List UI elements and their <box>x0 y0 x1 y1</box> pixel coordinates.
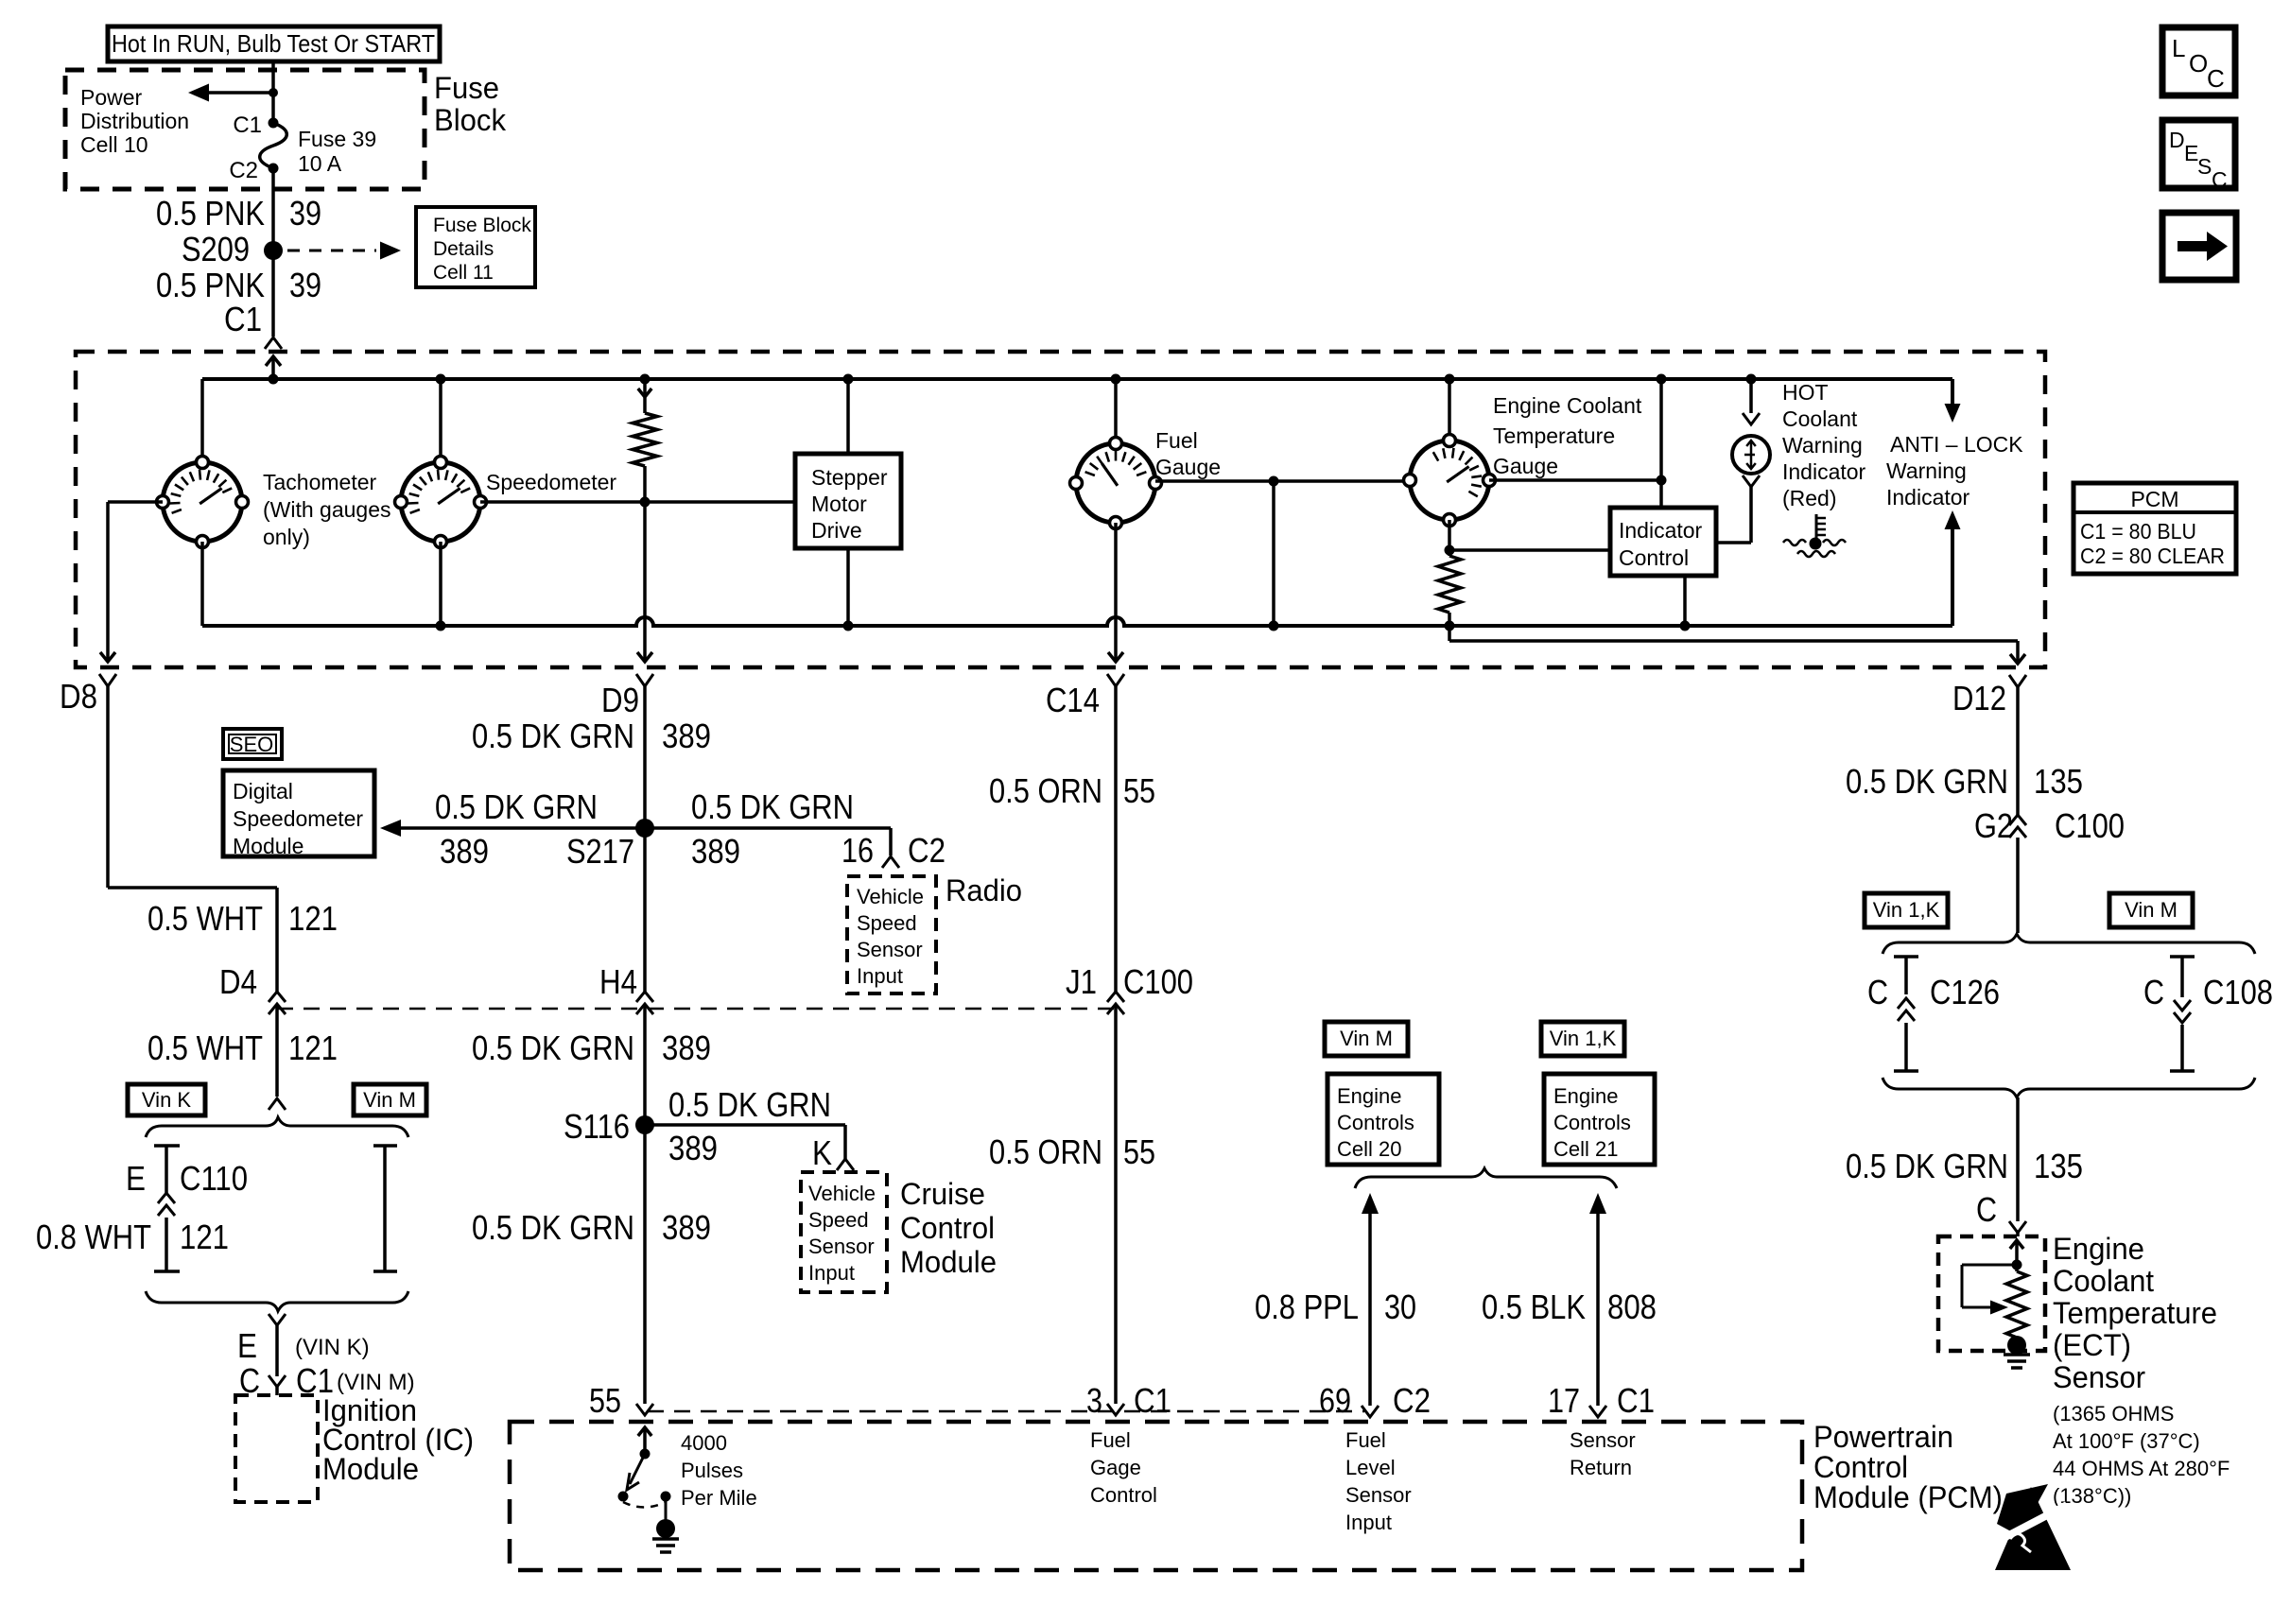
svg-text:Module: Module <box>322 1452 419 1486</box>
svg-text:Sensor: Sensor <box>2053 1360 2145 1394</box>
svg-text:Engine Coolant: Engine Coolant <box>1493 393 1642 418</box>
svg-text:Sensor: Sensor <box>808 1235 875 1258</box>
svg-text:Temperature: Temperature <box>1493 423 1615 448</box>
svg-text:Gauge: Gauge <box>1493 454 1558 478</box>
svg-text:(Red): (Red) <box>1782 486 1837 510</box>
svg-text:Engine: Engine <box>1553 1084 1619 1108</box>
arrow to power distribution <box>188 84 278 102</box>
wire C14 down to J1 <box>1114 686 1118 992</box>
indicator control box <box>1610 508 1716 576</box>
title box: Hot In RUN, Bulb Test Or START <box>108 26 440 61</box>
svg-text:G2: G2 <box>1974 806 2013 845</box>
svg-text:Temperature: Temperature <box>2053 1296 2217 1330</box>
svg-text:Control: Control <box>1090 1483 1157 1507</box>
svg-text:Engine: Engine <box>2053 1232 2144 1266</box>
Vin K tag box <box>128 1084 205 1115</box>
wire ECT right terminal to indicator control drop <box>1489 475 1667 486</box>
arrow wire to cell 21 (sensor return) <box>1589 1193 1606 1406</box>
svg-text:55: 55 <box>589 1381 621 1420</box>
svg-text:Sensor: Sensor <box>857 938 923 961</box>
hot coolant warning indicator lamp <box>1732 374 1770 490</box>
splice S116 <box>564 1107 654 1146</box>
svg-text:Vin K: Vin K <box>142 1088 192 1112</box>
PCM connector info box <box>2073 483 2236 574</box>
svg-text:0.5 WHT: 0.5 WHT <box>147 899 263 938</box>
label 0.8 PPL 30 <box>1255 1287 1416 1326</box>
label 0.5 DK GRN 135 upper <box>1846 762 2083 801</box>
svg-text:Level: Level <box>1345 1456 1396 1479</box>
svg-text:Per Mile: Per Mile <box>681 1486 757 1510</box>
fuse 39 10A fuse symbol <box>260 123 376 176</box>
svg-text:Control: Control <box>900 1211 995 1245</box>
wire indicator control to hot indicator <box>1716 489 1751 543</box>
svg-text:Module: Module <box>900 1245 997 1279</box>
radio label <box>946 873 1022 907</box>
arrow legend icon <box>2162 213 2236 280</box>
dashed arrow to fuse block details <box>287 242 401 260</box>
svg-text:D8: D8 <box>60 677 97 716</box>
cluster resistor on ECT branch <box>1438 556 1461 631</box>
C108 branch <box>2143 957 2273 1071</box>
wire J1 down to PCM pin 3 <box>1114 1004 1118 1404</box>
fuel level sensor input label <box>1345 1428 1412 1534</box>
svg-text:Vehicle: Vehicle <box>857 885 924 908</box>
svg-text:Controls: Controls <box>1337 1111 1414 1134</box>
svg-text:389: 389 <box>662 1028 711 1067</box>
svg-text:389: 389 <box>668 1129 718 1167</box>
svg-text:(VIN K): (VIN K) <box>295 1335 370 1360</box>
svg-text:C126: C126 <box>1930 973 2000 1011</box>
svg-text:At 100°F (37°C): At 100°F (37°C) <box>2053 1429 2200 1453</box>
svg-text:Speed: Speed <box>857 911 917 935</box>
connector D12 <box>1952 675 2026 717</box>
svg-text:0.8 WHT: 0.8 WHT <box>36 1218 151 1256</box>
svg-text:Sensor: Sensor <box>1570 1428 1636 1452</box>
label 0.5 DK GRN 389 (below D9) <box>472 717 711 755</box>
svg-text:D9: D9 <box>601 681 639 719</box>
svg-text:C: C <box>2207 64 2225 93</box>
wire D4 to vin brace <box>275 1004 279 1097</box>
anti-lock indicator drive arrow from bottom bus <box>1945 510 1961 626</box>
PCM pin 55 connector <box>589 1381 653 1420</box>
connector J1 C100 <box>1066 962 1193 1014</box>
svg-text:C: C <box>2212 167 2228 192</box>
svg-text:Radio: Radio <box>946 873 1022 907</box>
svg-text:0.8 PPL: 0.8 PPL <box>1255 1287 1359 1326</box>
svg-text:C110: C110 <box>180 1159 248 1198</box>
svg-text:HOT: HOT <box>1782 380 1829 405</box>
label 0.5 BLK 808 <box>1482 1287 1657 1326</box>
label 0.5 WHT 121 upper <box>147 899 338 938</box>
pin C2 of fuse block <box>229 158 278 183</box>
wire ECT bottom to resistor <box>1445 520 1611 556</box>
svg-text:C: C <box>2143 973 2164 1011</box>
svg-text:(ECT): (ECT) <box>2053 1328 2131 1362</box>
vin M branch plain <box>373 1146 397 1271</box>
svg-text:0.5 ORN: 0.5 ORN <box>989 1132 1102 1171</box>
engine controls cell 21 box <box>1544 1074 1655 1165</box>
svg-text:S209: S209 <box>182 230 250 268</box>
ECT gauge label <box>1493 393 1642 478</box>
wire to ignition control module <box>275 1325 279 1376</box>
cluster connector dashed separator line <box>277 1008 1116 1011</box>
svg-text:K: K <box>812 1133 832 1172</box>
wire D9 branch exits cluster <box>637 611 652 662</box>
svg-text:C1: C1 <box>224 300 262 338</box>
svg-text:C: C <box>1867 973 1888 1011</box>
connector chevron above vin brace <box>269 1098 286 1110</box>
svg-text:Powertrain: Powertrain <box>1813 1420 1953 1454</box>
svg-text:C2: C2 <box>1393 1381 1431 1420</box>
svg-text:Vin 1,K: Vin 1,K <box>1550 1027 1617 1050</box>
speedometer label <box>486 470 616 494</box>
label 0.5 ORN 55 upper <box>989 771 1155 810</box>
cruise control VSS input dashed box <box>801 1172 887 1292</box>
labels 16 C2 <box>842 831 946 870</box>
ESD sensitivity symbol <box>1984 1484 2071 1570</box>
svg-text:121: 121 <box>288 899 338 938</box>
LOC legend icon <box>2162 27 2235 95</box>
label 0.5 DK GRN 135 lower <box>1846 1147 2083 1185</box>
stepper motor drive box <box>795 374 901 631</box>
svg-text:C1: C1 <box>1617 1381 1655 1420</box>
svg-text:C: C <box>1976 1190 1997 1229</box>
svg-text:Cell 20: Cell 20 <box>1337 1137 1401 1161</box>
cluster resistor on D9 branch <box>633 374 657 612</box>
svg-text:C2: C2 <box>229 158 258 183</box>
splice S217 and wire to digital speedometer module <box>380 819 891 838</box>
PCM connector row dashed line <box>648 1410 1364 1413</box>
wire H4 down to S116 <box>643 1004 647 1125</box>
svg-text:Fuse Block: Fuse Block <box>433 215 531 236</box>
wire indicator control to bottom bus <box>1680 576 1691 631</box>
ECT sensor dashed box <box>1938 1236 2045 1351</box>
PCM pin 17 C1 connector <box>1548 1381 1655 1420</box>
svg-text:D12: D12 <box>1952 679 2006 717</box>
digital speedometer module box <box>223 770 374 858</box>
svg-text:Tachometer: Tachometer <box>263 470 377 494</box>
label 0.5 DK GRN 389 above PCM <box>472 1208 711 1247</box>
connector D4 <box>219 962 286 1014</box>
svg-text:C1: C1 <box>1134 1381 1171 1420</box>
wire speedometer to stepper motor drive <box>480 497 796 508</box>
engine coolant temperature gauge <box>1404 374 1496 527</box>
wire 0.5 PNK 39 from fuse to S209 <box>271 168 275 337</box>
svg-text:Vehicle: Vehicle <box>808 1182 876 1205</box>
svg-text:Vin M: Vin M <box>363 1088 416 1112</box>
engine controls brace <box>1355 1168 1617 1188</box>
Vin 1,K tag box (cell 21) <box>1541 1022 1624 1056</box>
fuse block details box <box>416 207 535 287</box>
svg-text:Controls: Controls <box>1553 1111 1631 1134</box>
svg-text:S: S <box>2197 154 2212 179</box>
svg-text:44 OHMS At 280°F: 44 OHMS At 280°F <box>2053 1457 2230 1480</box>
PCM pin 3 C1 connector <box>1086 1381 1171 1420</box>
pins E and C C1 of IC module <box>237 1326 415 1400</box>
label 0.5 PNK 39 upper <box>156 194 321 233</box>
ECT sensor thermistor <box>1962 1240 2030 1368</box>
Vin M tag box (cell 20) <box>1325 1022 1408 1056</box>
wire fuel gauge to ECT gauge <box>1155 476 1410 631</box>
svg-text:Power: Power <box>80 85 143 110</box>
ECT sensor label <box>2053 1232 2230 1508</box>
svg-text:0.5 DK GRN: 0.5 DK GRN <box>1846 762 2008 801</box>
svg-text:Cell 11: Cell 11 <box>433 262 494 284</box>
label 0.5 WHT 121 lower <box>147 1028 338 1067</box>
svg-text:C2 = 80 CLEAR: C2 = 80 CLEAR <box>2080 544 2225 568</box>
4000 pulses per mile generator <box>618 1427 680 1552</box>
svg-text:Distribution: Distribution <box>80 109 189 133</box>
svg-text:C100: C100 <box>2055 806 2125 845</box>
wire D12 down to C100 <box>2016 687 2020 815</box>
svg-text:C2: C2 <box>908 831 946 870</box>
svg-text:Engine: Engine <box>1337 1084 1402 1108</box>
svg-text:0.5 DK GRN: 0.5 DK GRN <box>1846 1147 2008 1185</box>
svg-text:(VIN M): (VIN M) <box>337 1370 415 1395</box>
svg-text:ANTI – LOCK: ANTI – LOCK <box>1890 432 2023 457</box>
wire S116 to cruise control connector K <box>645 1125 854 1170</box>
svg-text:3: 3 <box>1086 1381 1102 1420</box>
svg-text:SEO: SEO <box>230 733 273 756</box>
svg-text:E: E <box>237 1326 257 1365</box>
svg-text:Speed: Speed <box>808 1208 869 1232</box>
svg-text:Motor: Motor <box>811 492 867 516</box>
wire entering cluster with up arrow <box>266 356 281 385</box>
fuel gauge <box>1070 374 1162 663</box>
wire C100 to vin brace <box>2016 838 2020 933</box>
svg-text:389: 389 <box>440 832 489 871</box>
svg-text:(With gauges: (With gauges <box>263 497 391 522</box>
svg-text:Coolant: Coolant <box>2053 1264 2154 1298</box>
Vin M tag box (right) <box>2109 893 2193 927</box>
svg-text:Warning: Warning <box>1782 433 1863 458</box>
svg-text:121: 121 <box>180 1218 229 1256</box>
svg-text:55: 55 <box>1123 1132 1155 1171</box>
svg-text:Coolant: Coolant <box>1782 406 1858 431</box>
svg-text:Vin M: Vin M <box>1340 1027 1393 1050</box>
fuse block label <box>434 71 507 137</box>
svg-text:39: 39 <box>289 194 321 233</box>
svg-text:17: 17 <box>1548 1381 1580 1420</box>
svg-text:Fuel: Fuel <box>1090 1428 1131 1452</box>
PCM pin 69 C2 connector <box>1319 1381 1431 1420</box>
svg-text:Cell 21: Cell 21 <box>1553 1137 1618 1161</box>
svg-text:Fuel: Fuel <box>1345 1428 1386 1452</box>
svg-text:Fuel: Fuel <box>1155 428 1198 453</box>
connector D8 <box>60 674 116 716</box>
svg-text:Details: Details <box>433 238 494 260</box>
ignition control module dashed box <box>235 1395 318 1502</box>
wire top bus to indicator control <box>1657 374 1667 509</box>
svg-text:(1365 OHMS: (1365 OHMS <box>2053 1402 2174 1425</box>
svg-text:389: 389 <box>662 1208 711 1247</box>
svg-text:Return: Return <box>1570 1456 1632 1479</box>
wire to ECT sensor <box>2016 1097 2020 1221</box>
svg-text:Digital: Digital <box>233 779 293 803</box>
svg-text:C108: C108 <box>2203 973 2273 1011</box>
svg-text:Vin 1,K: Vin 1,K <box>1873 898 1940 922</box>
svg-text:C1: C1 <box>233 112 262 138</box>
svg-text:O: O <box>2189 49 2208 78</box>
svg-text:Block: Block <box>434 103 507 137</box>
svg-text:Control: Control <box>1813 1450 1908 1484</box>
anti-lock warning indicator label <box>1886 432 2023 510</box>
svg-text:Vin M: Vin M <box>2125 898 2178 922</box>
labels 0.5 DK GRN 389 at S116 <box>668 1085 832 1172</box>
svg-text:0.5 DK GRN: 0.5 DK GRN <box>472 717 634 755</box>
anti-lock warning feed arrow from top bus <box>1945 379 1961 423</box>
svg-text:S217: S217 <box>566 832 634 871</box>
ignition control module label <box>322 1393 474 1486</box>
svg-text:Control: Control <box>1619 545 1689 570</box>
label 0.5 DK GRN 389 below H4 <box>472 1028 711 1067</box>
svg-text:Input: Input <box>857 964 903 988</box>
svg-text:Gage: Gage <box>1090 1456 1141 1479</box>
svg-text:D4: D4 <box>219 962 257 1001</box>
svg-text:H4: H4 <box>599 962 637 1001</box>
wire: battery feed into fuse <box>271 60 275 123</box>
svg-text:C1 = 80 BLU: C1 = 80 BLU <box>2080 519 2196 544</box>
svg-text:Indicator: Indicator <box>1782 459 1866 484</box>
svg-text:808: 808 <box>1607 1287 1657 1326</box>
instrument cluster dashed box <box>76 352 2045 667</box>
svg-text:0.5 DK GRN: 0.5 DK GRN <box>472 1208 634 1247</box>
engine controls cell 20 box <box>1327 1074 1439 1165</box>
svg-text:L: L <box>2172 34 2185 62</box>
svg-text:Fuse 39: Fuse 39 <box>298 127 376 151</box>
wire to radio connector 16 C2 <box>882 828 899 868</box>
svg-text:Cruise: Cruise <box>900 1177 985 1211</box>
svg-text:Speedometer: Speedometer <box>233 806 363 831</box>
svg-text:0.5 DK GRN: 0.5 DK GRN <box>472 1028 634 1067</box>
vin split lower brace (right) <box>1883 1078 2255 1097</box>
svg-text:Warning: Warning <box>1886 458 1967 483</box>
fuel gauge label <box>1155 428 1221 479</box>
lower wire to D12 exit <box>1449 626 2025 664</box>
svg-text:Input: Input <box>1345 1511 1392 1534</box>
svg-text:Cell 10: Cell 10 <box>80 132 148 157</box>
svg-text:C100: C100 <box>1123 962 1193 1001</box>
fuse block dashed box <box>65 70 425 189</box>
arrow wire to cell 20 (fuel level sensor input) <box>1362 1193 1379 1406</box>
splice S209 <box>182 230 283 268</box>
svg-text:135: 135 <box>2034 1147 2083 1185</box>
radio VSS input dashed box <box>847 876 936 993</box>
powertrain control module dashed box <box>510 1422 1802 1570</box>
wire tach to D8 exit <box>100 502 163 662</box>
sensor return label <box>1570 1428 1636 1479</box>
svg-text:S116: S116 <box>564 1107 630 1146</box>
svg-text:Indicator: Indicator <box>1619 518 1703 543</box>
svg-text:Sensor: Sensor <box>1345 1483 1412 1507</box>
cruise control module label <box>900 1177 997 1279</box>
top supply bus inside cluster <box>202 377 1952 381</box>
svg-text:Module (PCM): Module (PCM) <box>1813 1480 2003 1514</box>
svg-text:PCM: PCM <box>2130 487 2178 511</box>
svg-text:389: 389 <box>662 717 711 755</box>
svg-text:Hot In RUN, Bulb Test Or START: Hot In RUN, Bulb Test Or START <box>112 29 435 58</box>
label 0.5 ORN 55 lower <box>989 1132 1155 1171</box>
power distribution text <box>80 85 189 157</box>
vin split upper brace <box>146 1117 408 1137</box>
C126 branch <box>1867 957 2000 1071</box>
svg-text:30: 30 <box>1384 1287 1416 1326</box>
wire D9 down to S217 <box>643 686 647 992</box>
Vin 1,K tag box (right) <box>1865 893 1948 927</box>
svg-text:E: E <box>126 1159 146 1198</box>
svg-text:Indicator: Indicator <box>1886 485 1970 510</box>
label 0.5 PNK 39 lower <box>156 266 321 304</box>
vin split lower brace <box>146 1291 408 1311</box>
bottom bus inside cluster with hops at D9 and C14 drops <box>202 617 1952 626</box>
svg-text:Input: Input <box>808 1261 855 1285</box>
svg-text:16: 16 <box>842 831 874 870</box>
svg-text:0.5 PNK: 0.5 PNK <box>156 194 265 233</box>
svg-text:0.5 ORN: 0.5 ORN <box>989 771 1102 810</box>
svg-text:0.5 PNK: 0.5 PNK <box>156 266 265 304</box>
connector C1 into cluster <box>224 300 282 349</box>
connector H4 <box>599 962 653 1014</box>
hot coolant thermometer icon <box>1783 514 1846 557</box>
svg-text:0.5 BLK: 0.5 BLK <box>1482 1287 1586 1326</box>
svg-text:only): only) <box>263 525 310 549</box>
wire D8 to D4 <box>108 686 277 992</box>
DESC legend icon <box>2162 120 2235 192</box>
svg-text:389: 389 <box>691 832 740 871</box>
svg-text:Gauge: Gauge <box>1155 455 1221 479</box>
fuel gage control label <box>1090 1428 1157 1507</box>
svg-text:J1: J1 <box>1066 962 1097 1001</box>
svg-text:Fuse: Fuse <box>434 71 499 105</box>
svg-text:Stepper: Stepper <box>811 465 888 490</box>
tachometer label <box>263 470 391 549</box>
tachometer gauge <box>157 379 249 626</box>
connector chevron below vin brace <box>269 1314 286 1325</box>
SEO tag box <box>223 729 282 759</box>
wire S116 down to PCM pin 55 <box>643 1125 647 1404</box>
svg-text:121: 121 <box>288 1028 338 1067</box>
svg-text:Drive: Drive <box>811 518 862 543</box>
svg-text:4000: 4000 <box>681 1431 727 1455</box>
svg-text:0.5 WHT: 0.5 WHT <box>147 1028 263 1067</box>
labels around S217 <box>435 787 854 871</box>
pin C1 of fuse block <box>233 112 278 138</box>
svg-text:55: 55 <box>1123 771 1155 810</box>
hot coolant warning indicator label <box>1782 380 1866 510</box>
vin K branch with C110 connector <box>36 1146 248 1271</box>
svg-text:0.5 DK GRN: 0.5 DK GRN <box>435 787 598 826</box>
speedometer gauge <box>395 374 487 631</box>
svg-text:Pulses: Pulses <box>681 1459 743 1482</box>
Vin M tag box <box>354 1084 426 1115</box>
connector C14 <box>1046 674 1124 719</box>
svg-text:69: 69 <box>1319 1381 1351 1420</box>
svg-text:0.5 DK GRN: 0.5 DK GRN <box>691 787 854 826</box>
svg-text:39: 39 <box>289 266 321 304</box>
connector D9 <box>601 674 653 719</box>
4000 pulses per mile label <box>681 1431 757 1510</box>
svg-text:10 A: 10 A <box>298 151 342 176</box>
vin split upper brace (right) <box>1883 934 2255 954</box>
PCM label <box>1813 1420 2003 1514</box>
svg-text:0.5 DK GRN: 0.5 DK GRN <box>668 1085 831 1124</box>
svg-text:135: 135 <box>2034 762 2083 801</box>
svg-text:Module: Module <box>233 834 304 858</box>
connector C of ECT sensor <box>1976 1190 2026 1236</box>
svg-text:C14: C14 <box>1046 681 1100 719</box>
svg-text:D: D <box>2169 128 2185 152</box>
svg-text:Speedometer: Speedometer <box>486 470 616 494</box>
